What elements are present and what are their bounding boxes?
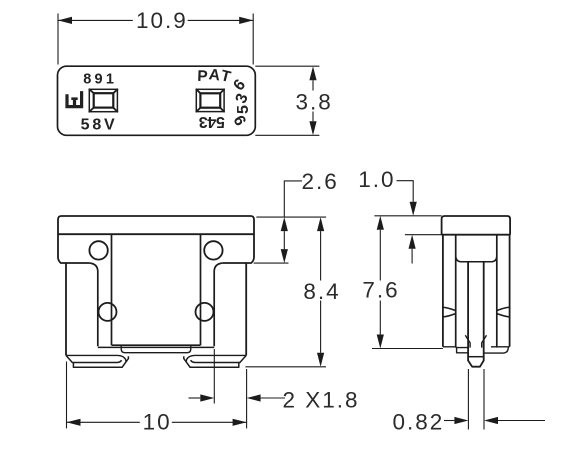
svg-text:2 X1.8: 2 X1.8: [282, 388, 359, 413]
left embossed square: [89, 89, 117, 111]
dimension 0.82: [444, 369, 545, 430]
svg-text:7.6: 7.6: [362, 278, 399, 303]
dimension 10: [67, 362, 247, 429]
right embossed square: [196, 89, 224, 111]
dimension 7.6: [372, 230, 443, 349]
cavity taper diagonals: [465, 335, 486, 347]
center bar: [121, 345, 191, 353]
svg-text:3: 3: [199, 113, 208, 130]
terminal pin: [468, 262, 484, 367]
svg-text:8.4: 8.4: [303, 279, 340, 304]
bottom ledges: [443, 347, 468, 353]
left foot: [66, 355, 122, 362]
dimension 3.8: [255, 66, 319, 135]
svg-text:891: 891: [83, 71, 117, 87]
svg-text:1.0: 1.0: [358, 167, 395, 192]
svg-text:5: 5: [235, 105, 252, 114]
side parting line: [442, 234, 511, 236]
slot edges: [112, 234, 201, 345]
marking PAT: [197, 66, 233, 86]
dimension 8.4: [245, 231, 326, 367]
right foot: [191, 355, 247, 362]
svg-text:10: 10: [143, 410, 172, 435]
marking E rotated: [65, 91, 83, 108]
svg-text:0.82: 0.82: [393, 409, 445, 434]
dimension 1.0: [374, 181, 441, 264]
svg-text:3.8: 3.8: [296, 89, 333, 114]
top circles: [89, 241, 107, 259]
underside lines: [66, 355, 126, 361]
channel bottom line: [98, 346, 214, 348]
dimension 10.9: [58, 14, 253, 65]
slot bottom: [112, 344, 201, 346]
cavity bottom: [456, 256, 497, 262]
fuse top view body outline: [58, 66, 256, 135]
svg-text:P: P: [197, 68, 208, 85]
dimension 2.6: [254, 181, 326, 263]
patent digits around square: [199, 76, 252, 129]
wall notches: [443, 307, 456, 317]
cap outline: [58, 216, 254, 263]
inner fillets and ribs: [89, 263, 98, 346]
body sides: [66, 263, 246, 355]
side cap: [442, 216, 511, 235]
svg-text:58V: 58V: [81, 116, 118, 133]
side walls: [443, 235, 510, 347]
cap parting line: [58, 233, 254, 235]
dimension 2 x1.8: [189, 349, 286, 404]
mid circles: [99, 303, 117, 321]
svg-text:10.9: 10.9: [136, 8, 188, 33]
svg-text:2.6: 2.6: [302, 169, 339, 194]
